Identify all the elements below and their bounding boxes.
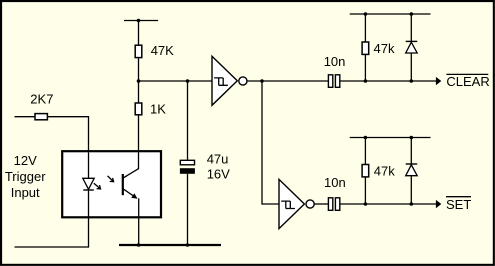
label CLEAR — [446, 74, 489, 89]
wire 47u to ground — [187, 174, 189, 245]
ground rail — [119, 244, 221, 246]
svg-text:16V: 16V — [207, 166, 230, 181]
wire cap to SET arrow — [340, 203, 436, 205]
svg-text:CLEAR: CLEAR — [446, 74, 489, 89]
wire 47K to node A — [138, 58, 140, 103]
VCC rail CLEAR — [350, 13, 431, 15]
wire cap to CLEAR arrow — [340, 80, 436, 82]
junction rail diode — [410, 12, 414, 16]
wire rail to diode SET — [410, 138, 412, 165]
wire LED cathode to input- — [15, 190, 89, 247]
wire node A down to capacitor 47u — [187, 81, 189, 161]
wire LED anode inside box — [88, 152, 90, 178]
wire U2 output to cap — [314, 203, 329, 205]
wire VCC to 47K — [138, 21, 140, 46]
junction 47k CLEAR — [364, 79, 368, 83]
junction U1 output — [260, 79, 264, 83]
wire 47k to SET net — [364, 177, 366, 204]
node A wire to inverter input — [139, 80, 213, 82]
wire 1K down to optocoupler box — [138, 115, 140, 152]
svg-text:12V: 12V — [14, 153, 37, 168]
emitter arrowhead — [131, 193, 137, 198]
wire input+ left — [15, 116, 36, 118]
resistor 2K7 — [35, 114, 47, 120]
capacitor 47u 16V — [180, 152, 230, 182]
label SET — [446, 197, 471, 212]
junction rail 47k — [364, 12, 368, 16]
wire emitter to ground — [138, 198, 140, 245]
svg-text:Input: Input — [11, 185, 40, 200]
junction rail diode SET — [410, 136, 414, 140]
junction ground 47u — [186, 243, 190, 247]
LED of optocoupler — [83, 178, 94, 190]
optocoupler box — [62, 151, 161, 217]
diode (SET) — [406, 164, 418, 176]
resistor 47K — [135, 43, 174, 58]
junction node A / 47u — [186, 79, 190, 83]
op-amp / inverter U1 (schmitt) — [212, 56, 237, 105]
svg-text:47K: 47K — [151, 43, 174, 58]
phototransistor collector — [123, 169, 139, 179]
wire diode to CLEAR net — [410, 53, 412, 81]
diode (CLEAR) — [406, 41, 418, 53]
wire rail to diode — [410, 14, 412, 41]
svg-text:1K: 1K — [150, 102, 166, 117]
svg-text:Trigger: Trigger — [5, 169, 46, 184]
phototransistor emitter — [123, 189, 137, 199]
resistor 47k (SET) — [362, 164, 395, 179]
wire 47k to CLEAR net — [364, 54, 366, 81]
wire U1 output to U2 input — [262, 81, 279, 204]
capacitor 10n (CLEAR) — [324, 54, 346, 88]
arrow SET — [436, 200, 441, 208]
resistor 47k (CLEAR) — [362, 41, 395, 56]
svg-text:10n: 10n — [324, 175, 346, 190]
svg-text:10n: 10n — [324, 54, 346, 69]
inverter U1 bubble — [239, 77, 247, 85]
light arrow 1 — [94, 183, 101, 189]
wire collector inside box — [138, 151, 140, 169]
svg-text:2K7: 2K7 — [30, 91, 53, 106]
label 12V Trigger Input — [5, 153, 46, 200]
light arrow 2 — [108, 176, 114, 182]
junction 47k SET — [364, 202, 368, 206]
resistor 1K — [135, 102, 166, 117]
wire U1 output — [247, 80, 329, 82]
VCC tap rail — [124, 20, 158, 22]
svg-text:SET: SET — [446, 197, 471, 212]
junction diode CLEAR — [410, 79, 414, 83]
junction ground emitter — [137, 243, 141, 247]
capacitor 10n (SET) — [324, 175, 346, 211]
arrow CLEAR — [436, 77, 441, 85]
junction diode SET — [410, 202, 414, 206]
wire rail to 47k SET — [364, 138, 366, 165]
svg-text:47u: 47u — [207, 152, 229, 167]
junction VCC tap — [137, 19, 141, 23]
svg-text:47k: 47k — [374, 164, 395, 179]
wire rail to 47k — [364, 14, 366, 42]
inverter U2 (schmitt) — [279, 179, 304, 228]
phototransistor base bar — [122, 174, 124, 195]
wire diode to SET net — [410, 176, 412, 204]
junction node A — [137, 79, 141, 83]
junction rail 47k SET — [364, 136, 368, 140]
VCC rail SET — [350, 137, 431, 139]
inverter U2 bubble — [306, 200, 314, 208]
wire 2K7 to LED anode — [47, 117, 88, 179]
svg-text:47k: 47k — [374, 41, 395, 56]
